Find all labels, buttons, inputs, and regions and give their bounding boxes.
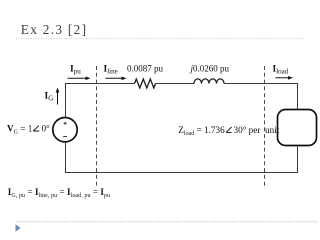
- svg-text:unit: unit: [265, 125, 280, 135]
- wire right drop (bottom): [297, 146, 299, 173]
- wire top rail right segment: [224, 83, 298, 85]
- title dotted rule: [16, 38, 305, 40]
- svg-text:0.0087 pu: 0.0087 pu: [127, 64, 164, 74]
- svg-text:j0.0260 pu: j0.0260 pu: [190, 64, 230, 74]
- svg-text:IG: IG: [45, 92, 54, 103]
- svg-text:VG = 1: VG = 1: [7, 123, 33, 135]
- load box: [278, 110, 317, 146]
- wire left drop (top): [65, 83, 67, 118]
- arrow Iload: [276, 76, 294, 80]
- angle symbol in Zload label: [226, 127, 232, 132]
- svg-text:Iload: Iload: [273, 65, 289, 76]
- wire right drop (top): [297, 83, 299, 110]
- svg-text:Iline: Iline: [104, 65, 118, 76]
- voltage source VG circle: [53, 118, 77, 142]
- angle symbol in VG label: [33, 126, 39, 131]
- inductor j0.0260 pu: [194, 79, 224, 84]
- arrow IG (up): [56, 88, 60, 105]
- dashed boundary line 1: [96, 66, 98, 189]
- resistor 0.0087 pu: [135, 79, 156, 88]
- wire top rail left segment: [65, 83, 135, 85]
- wire left drop (bottom): [65, 142, 67, 173]
- svg-text:IG, pu = Iline, pu = Iload, pu: IG, pu = Iline, pu = Iload, pu = Ipu: [8, 187, 110, 199]
- footer bullet triangle: [16, 224, 21, 231]
- wire between resistor and inductor: [156, 83, 194, 85]
- footer dotted rule: [16, 221, 319, 223]
- wire bottom rail: [65, 172, 298, 174]
- svg-text:Ipu: Ipu: [70, 65, 81, 76]
- dashed boundary line 2: [264, 66, 266, 189]
- arrow Iline: [106, 77, 127, 81]
- arrow Ipu: [68, 77, 91, 81]
- svg-text:0°: 0°: [42, 123, 51, 133]
- svg-text:30° per: 30° per: [234, 125, 261, 135]
- svg-text:Zload = 1.736: Zload = 1.736: [178, 125, 225, 137]
- source minus sign: [63, 135, 67, 137]
- svg-text:Ex 2.3 [2]: Ex 2.3 [2]: [21, 22, 88, 37]
- source plus sign: [64, 122, 67, 125]
